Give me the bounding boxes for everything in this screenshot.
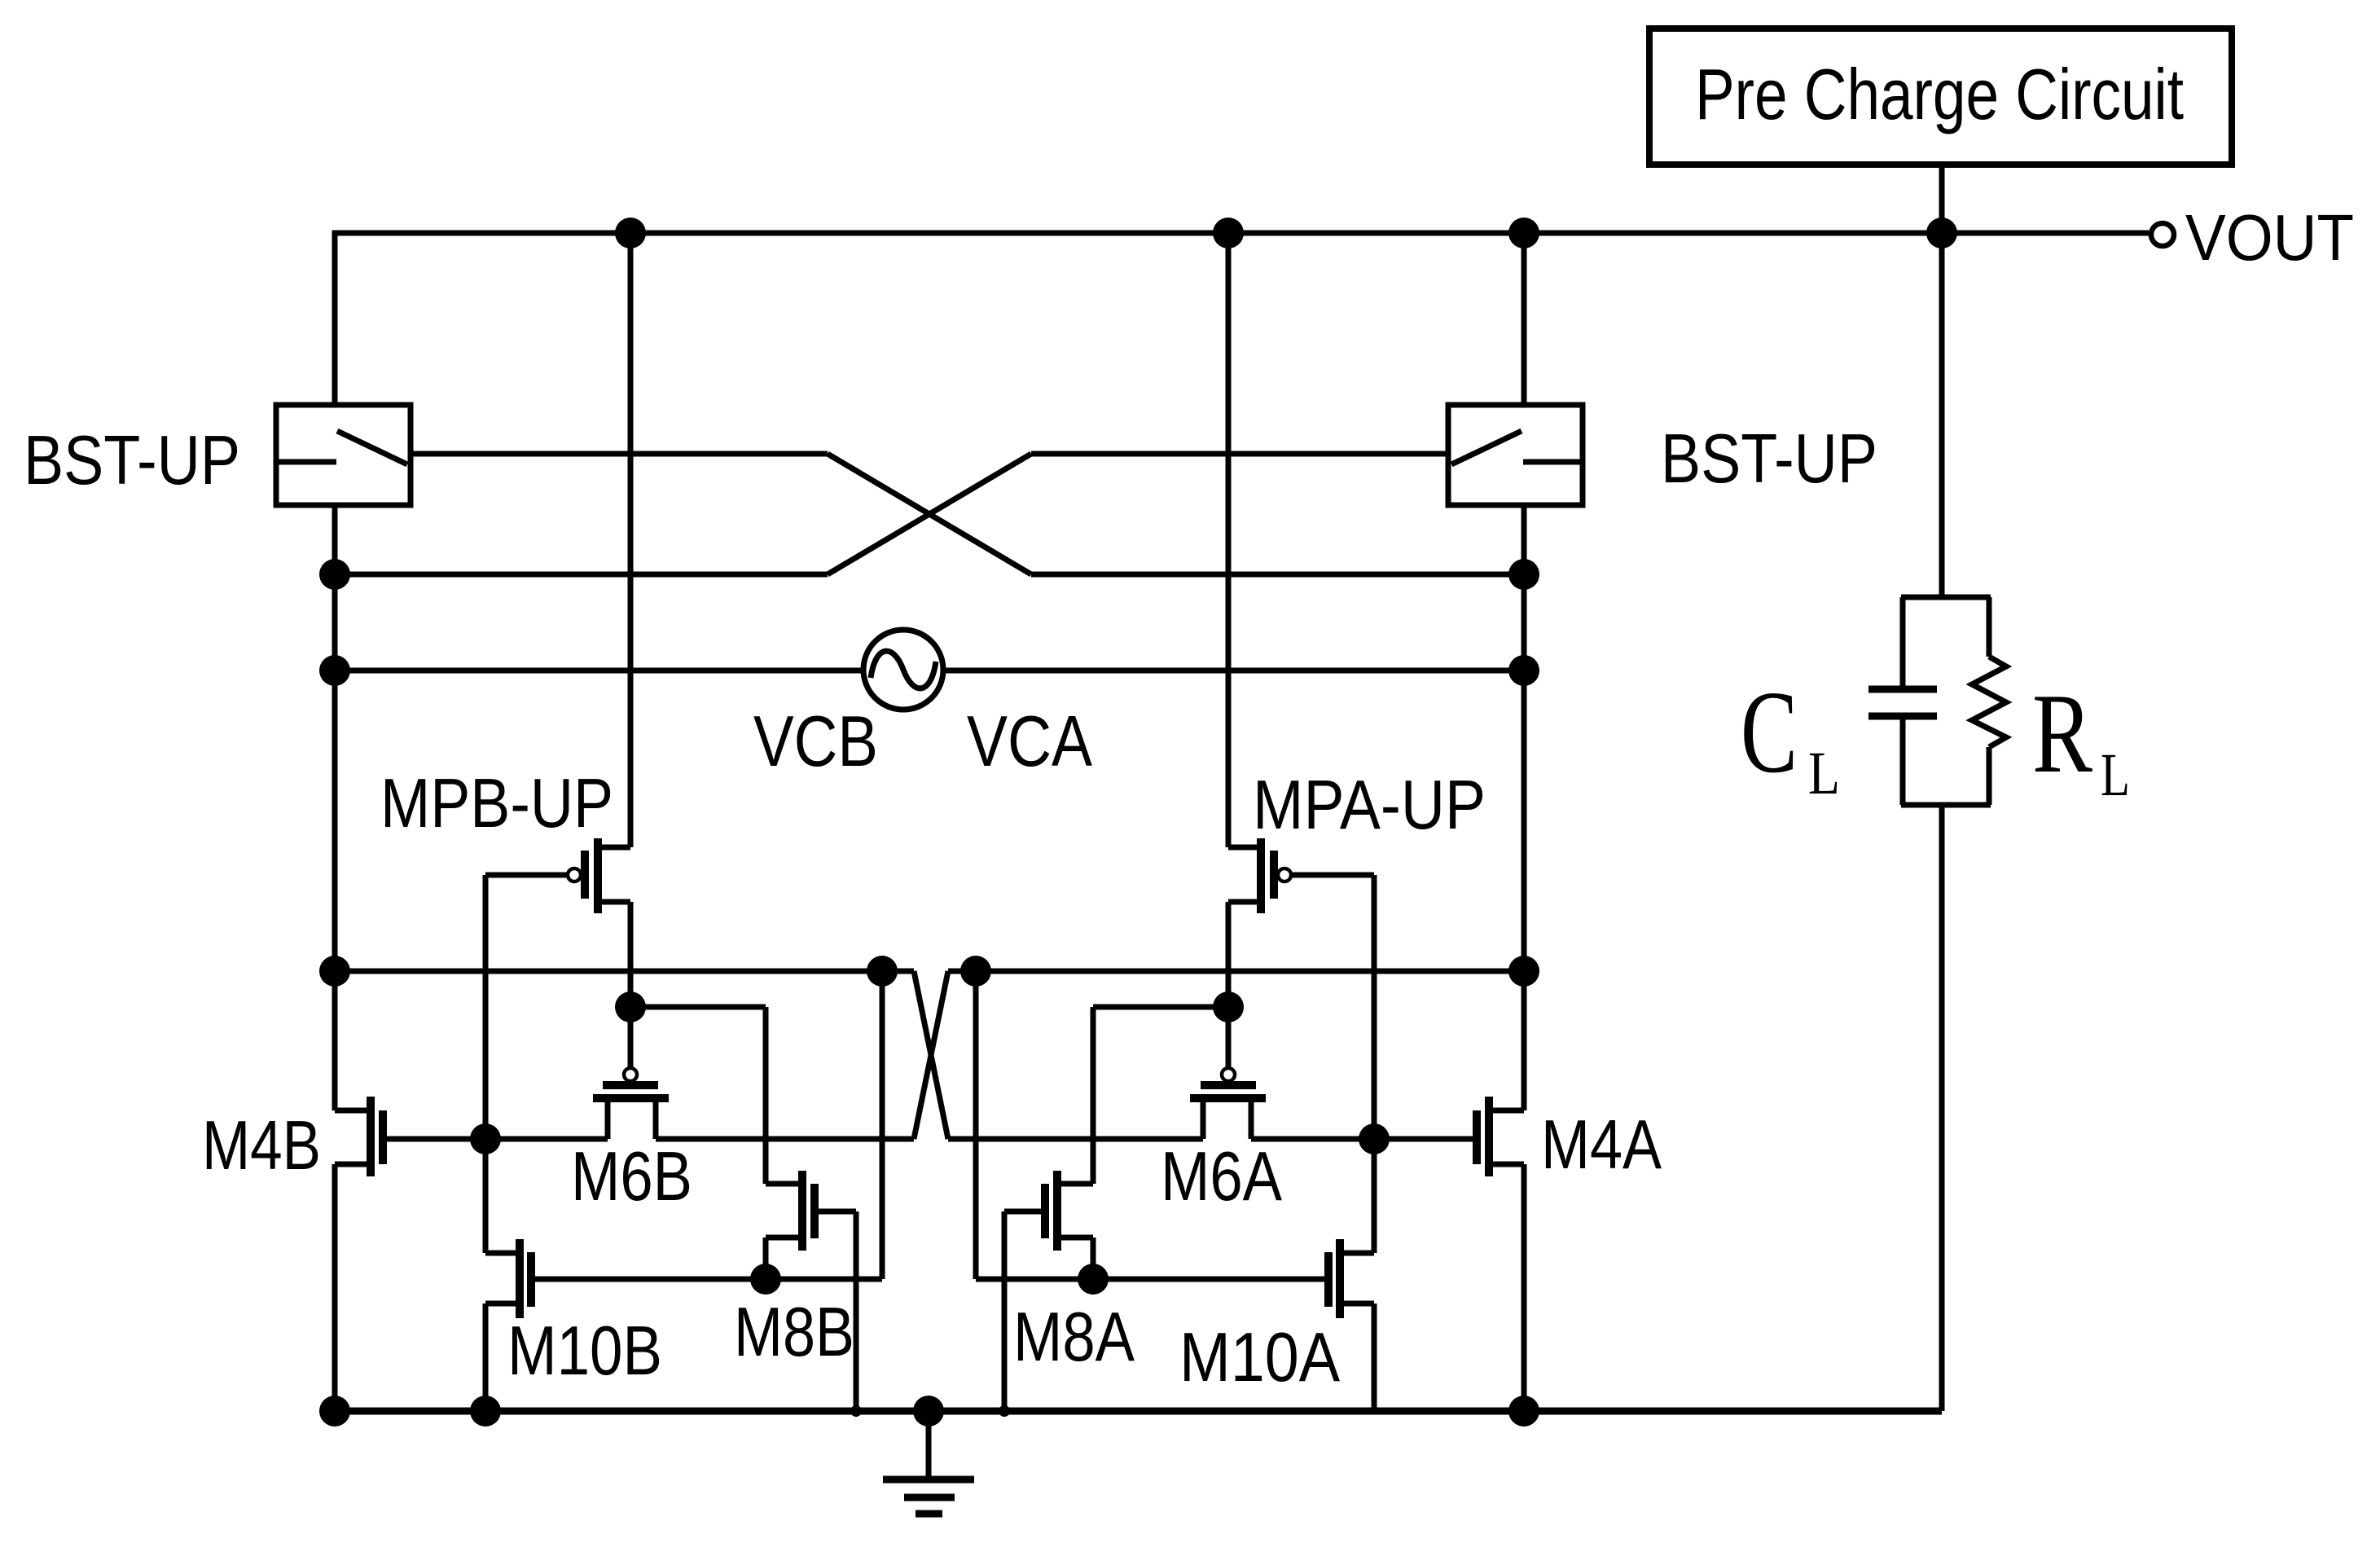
svg-text:L: L <box>1808 740 1840 807</box>
wire: MPB-UP source column <box>628 233 634 847</box>
wire: M8B source drop <box>763 1238 769 1279</box>
ground stem <box>926 1411 932 1479</box>
wire: M8B gate lead <box>815 1209 856 1215</box>
capacitor CL top plate <box>1868 686 1937 693</box>
transistor M8A channel bar <box>1053 1171 1061 1251</box>
svg-text:C: C <box>1741 667 1798 798</box>
junction: left column / drain bus <box>319 956 350 987</box>
M4A drain jog <box>1489 1108 1524 1114</box>
transistor M10A gate bar <box>1324 1252 1333 1307</box>
transistor MPB-UP gate bar <box>581 851 589 899</box>
svg-text:M6B: M6B <box>571 1138 692 1216</box>
svg-text:VCB: VCB <box>753 701 878 781</box>
wire: M8B gate drop to rail <box>854 1211 859 1411</box>
M6A right terminal stub <box>1249 1098 1254 1139</box>
capacitor CL top lead <box>1900 597 1906 686</box>
wire: ground rail <box>335 1408 1942 1415</box>
junction: left column / lower row <box>319 559 350 590</box>
junction: rail / M10B source <box>470 1396 501 1427</box>
resistor RL zigzag <box>1972 657 2006 747</box>
ground bar 1 <box>883 1476 974 1484</box>
switch S2 contact line <box>1523 459 1583 465</box>
wire: node A row <box>1093 1005 1228 1010</box>
svg-text:M8B: M8B <box>734 1294 854 1371</box>
transistor M4B channel bar <box>367 1097 375 1176</box>
svg-text:M4B: M4B <box>202 1107 321 1185</box>
wire: gate row right segment a <box>948 1137 1203 1142</box>
ground bar 2 <box>904 1494 955 1501</box>
svg-text:M10A: M10A <box>1179 1319 1340 1396</box>
transistor M10B gate bar <box>527 1252 535 1307</box>
MPA-UP drain jog <box>1228 899 1261 905</box>
wire: lower gate row right (M10A gate) <box>976 1277 1328 1282</box>
wire: lower gate row left (M10B gate) <box>531 1277 882 1282</box>
wire: MPA-UP drain down <box>1226 902 1232 1007</box>
wire: load bottom bar <box>1901 802 1991 808</box>
MPB-UP drain jog <box>598 899 630 905</box>
junction: rail / M8A gate <box>999 1405 1010 1417</box>
wire: gate row right segment b <box>1251 1137 1477 1142</box>
M8A drain jog <box>1057 1181 1093 1187</box>
source V1 sine <box>871 651 936 688</box>
svg-text:M4A: M4A <box>1541 1106 1662 1184</box>
wire: node B row <box>630 1005 766 1010</box>
wire: MPA-UP gate lead <box>1291 873 1374 878</box>
MPA-UP gate bubble <box>1278 868 1291 882</box>
wire: crossover diagonal B <box>828 454 1031 574</box>
M6B left terminal stub <box>605 1098 611 1139</box>
svg-text:BST-UP: BST-UP <box>1661 420 1877 498</box>
junction: rail / left column <box>319 1396 350 1427</box>
svg-text:L: L <box>2101 741 2130 809</box>
resistor RL bottom lead <box>1987 747 1992 805</box>
wire: M6B gate stub <box>628 1007 634 1069</box>
junction: rail / MPA-UP column <box>1213 218 1244 248</box>
wire: left column below box <box>332 505 338 1110</box>
wire: crossover diagonal A <box>828 454 1031 574</box>
wire: M6A gate stub <box>1226 1007 1232 1069</box>
junction: rail / right BST-UP column <box>1508 218 1539 248</box>
transistor M6A channel bar <box>1190 1094 1266 1102</box>
wire: left bias column (MPB gate to M10B) <box>483 875 489 1253</box>
junction: M4A gate node <box>1359 1123 1390 1154</box>
svg-text:BST-UP: BST-UP <box>24 422 240 499</box>
wire: left column bottom <box>332 1164 338 1411</box>
label: RL <box>2032 670 2130 809</box>
transistor M6A gate bar <box>1201 1081 1256 1089</box>
wire: load top lead <box>1939 233 1945 597</box>
junction: rail / MPB-UP column <box>615 218 646 248</box>
ground bar 3 <box>916 1510 942 1518</box>
transistor M10A channel bar <box>1336 1239 1344 1318</box>
MPB-UP gate bubble <box>568 868 581 882</box>
junction: M8A source / M10A gate row <box>1078 1264 1109 1295</box>
junction: M8B source / M10B gate row <box>750 1264 781 1295</box>
wire: MPB-UP drain down <box>628 902 634 1007</box>
wire: right bias column (MPA gate to M10A) <box>1372 875 1377 1253</box>
M10B source jog <box>485 1301 520 1307</box>
junction: rail / M8B gate <box>850 1405 862 1417</box>
M4B source jog <box>335 1162 371 1167</box>
M8B source jog <box>766 1235 802 1241</box>
wire: right column below box <box>1522 505 1527 1110</box>
transistor M6B gate bar <box>603 1081 658 1089</box>
source V1 (VCB/VCA) circle <box>863 630 943 710</box>
svg-text:VOUT: VOUT <box>2185 201 2354 274</box>
terminal: VOUT open circle <box>2151 223 2174 246</box>
wire: gate row left segment a <box>485 1137 608 1142</box>
M10A source jog <box>1340 1301 1374 1307</box>
wire: left BST-UP output row (upper-left) <box>411 451 828 457</box>
wire: right column bottom <box>1522 1164 1527 1411</box>
M6A left terminal stub <box>1201 1098 1206 1139</box>
wire: gate row left segment b <box>656 1137 914 1142</box>
switch S1 contact line <box>276 459 336 465</box>
wire: M8A gate drop to rail <box>1002 1211 1008 1411</box>
MPA-UP source jog <box>1228 845 1261 851</box>
wire: load bottom lead <box>1939 805 1945 1411</box>
M4B drain jog <box>335 1108 371 1114</box>
wire: lower-left row from left column <box>335 572 828 578</box>
label: CL <box>1741 667 1840 807</box>
switch S2 lever <box>1451 431 1522 464</box>
wire: load top bar <box>1901 595 1991 600</box>
transistor M10B channel bar <box>516 1239 524 1318</box>
wire: drain bus right <box>948 969 1524 974</box>
wire: lower-right row to right column <box>1031 572 1524 578</box>
transistor M4A gate bar <box>1473 1110 1481 1164</box>
wire: M8B drain vertical <box>763 1007 769 1184</box>
transistor M8B gate bar <box>810 1184 819 1238</box>
wire: cross-couple vertical left <box>880 971 885 1279</box>
transistor MPB-UP channel bar <box>594 838 602 913</box>
wire: VOUT rail <box>335 233 2149 405</box>
svg-text:M10B: M10B <box>507 1312 662 1390</box>
wire: upper-right row to right BST-UP output <box>1031 451 1448 457</box>
capacitor CL bottom lead <box>1900 719 1906 805</box>
transistor M4B gate bar <box>379 1110 387 1164</box>
svg-text:MPA-UP: MPA-UP <box>1253 767 1486 844</box>
transistor M8A gate bar <box>1041 1184 1049 1238</box>
pre-charge circuit block U1 <box>1649 29 2232 165</box>
wire: MPB-UP gate lead <box>485 873 568 878</box>
wire: drain bus left <box>335 969 914 974</box>
switch S1 box (left BST-UP) <box>276 405 411 505</box>
junction: rail / ground stem <box>913 1396 944 1427</box>
M10A drain jog <box>1340 1251 1374 1256</box>
resistor RL top lead <box>1987 597 1992 657</box>
junction: right column / VC row <box>1508 655 1539 686</box>
transistor M8B channel bar <box>798 1171 806 1251</box>
wire: MPA-UP source column <box>1226 233 1232 847</box>
transistor MPA-UP channel bar <box>1257 838 1265 913</box>
wire: M10B source drop <box>483 1304 489 1411</box>
wire: bus diagonal A <box>914 971 948 1139</box>
junction: right column / drain bus <box>1508 956 1539 987</box>
svg-text:M6A: M6A <box>1161 1138 1282 1216</box>
transistor M6B gate bubble <box>624 1068 637 1081</box>
svg-text:MPB-UP: MPB-UP <box>380 765 613 842</box>
junction: right column / lower row <box>1508 559 1539 590</box>
transistor M6B channel bar <box>593 1094 669 1102</box>
junction: node B (MPB drain) <box>615 991 646 1022</box>
junction: node A (MPA drain) <box>1213 991 1244 1022</box>
wire: M8A drain vertical <box>1091 1007 1096 1184</box>
wire: VC row left <box>335 668 863 674</box>
wire: M8A source drop <box>1091 1238 1096 1279</box>
svg-text:R: R <box>2032 670 2092 797</box>
M10B drain jog <box>485 1251 520 1256</box>
transistor MPA-UP gate bar <box>1270 851 1278 899</box>
wire: M4B gate lead <box>383 1137 485 1142</box>
transistor M6A gate bubble <box>1222 1068 1235 1081</box>
junction: drain bus / cross-couple left <box>867 956 898 987</box>
capacitor CL bottom plate <box>1868 713 1937 720</box>
svg-text:M8A: M8A <box>1013 1299 1135 1376</box>
wire: M8A gate lead <box>1004 1209 1045 1215</box>
junction: rail / right column <box>1508 1396 1539 1427</box>
MPB-UP source jog <box>598 845 630 851</box>
junction: drain bus / cross-couple right <box>960 956 991 987</box>
M8A source jog <box>1057 1235 1093 1241</box>
transistor M4A channel bar <box>1485 1097 1493 1176</box>
junction: M4B gate node <box>470 1123 501 1154</box>
switch S1 lever <box>337 431 407 464</box>
M6B right terminal stub <box>653 1098 659 1139</box>
switch S2 box (right BST-UP) <box>1448 233 1583 505</box>
wire: pre-charge output lead <box>1939 165 1945 233</box>
wire: bus diagonal B <box>914 971 948 1139</box>
svg-text:Pre Charge Circuit: Pre Charge Circuit <box>1695 54 2184 134</box>
wire: M10A source drop <box>1372 1304 1377 1411</box>
wire: cross-couple vertical right <box>973 971 979 1279</box>
junction: rail / pre-charge and load <box>1926 218 1957 248</box>
wire: VC row right <box>943 668 1524 674</box>
M8B drain jog <box>766 1181 802 1187</box>
svg-text:VCA: VCA <box>967 701 1092 781</box>
junction: left column / VC row <box>319 655 350 686</box>
M4A source jog <box>1489 1162 1524 1167</box>
